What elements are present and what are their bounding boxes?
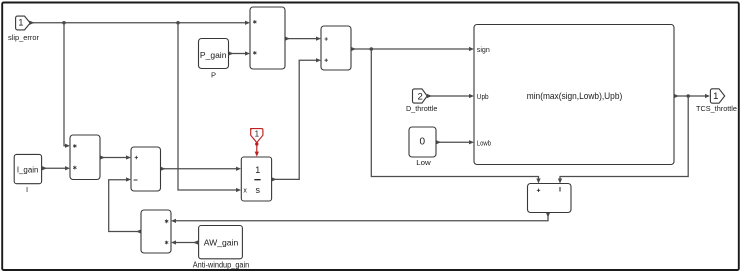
svg-text:TCS_throttle: TCS_throttle: [696, 104, 737, 113]
svg-text:P: P: [211, 71, 216, 80]
svg-text:P_gain: P_gain: [200, 51, 227, 60]
svg-text:s: s: [256, 185, 261, 195]
svg-text:2: 2: [418, 92, 423, 103]
svg-text:0: 0: [420, 137, 426, 148]
svg-text:1: 1: [18, 18, 23, 28]
svg-text:x: x: [243, 187, 247, 194]
svg-text:Anti-windup_gain: Anti-windup_gain: [193, 260, 250, 269]
svg-text:1: 1: [255, 165, 260, 175]
svg-text:D_throttle: D_throttle: [406, 104, 438, 113]
svg-text:slip_error: slip_error: [8, 33, 39, 42]
svg-text:I: I: [26, 185, 28, 194]
svg-text:I_gain: I_gain: [17, 165, 39, 174]
svg-text:Low: Low: [416, 158, 431, 167]
svg-text:AW_gain: AW_gain: [204, 239, 239, 248]
svg-text:Lowb: Lowb: [477, 140, 491, 147]
svg-text:sign: sign: [477, 47, 490, 54]
svg-text:1: 1: [255, 129, 260, 138]
svg-text:min(max(sign,Lowb),Upb): min(max(sign,Lowb),Upb): [527, 91, 623, 102]
svg-text:Upb: Upb: [477, 94, 489, 101]
svg-text:1: 1: [713, 91, 718, 102]
